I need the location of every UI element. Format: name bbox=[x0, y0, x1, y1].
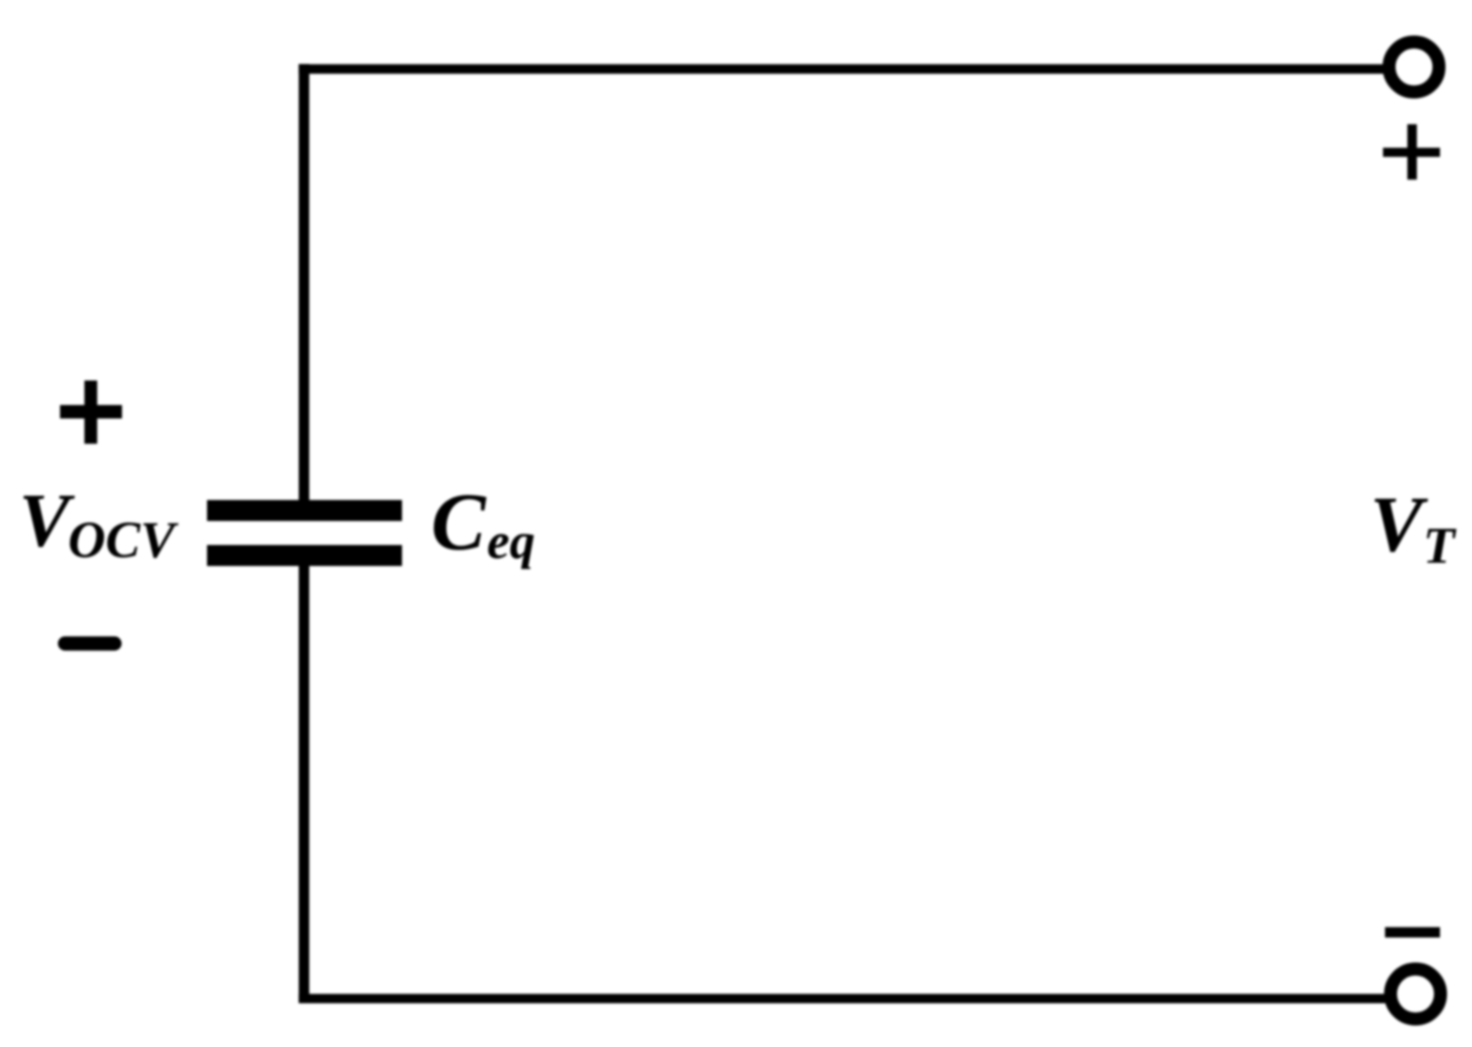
wire: bottom horizontal segment bbox=[299, 994, 1392, 1003]
label C_eq bbox=[431, 476, 535, 570]
label V_T bbox=[1370, 482, 1457, 575]
capacitor C_eq top plate bbox=[207, 500, 402, 521]
capacitor C_eq bottom plate bbox=[207, 545, 402, 566]
terminal node: top-right open circle bbox=[1389, 42, 1439, 92]
wire: left vertical upper segment bbox=[299, 64, 310, 505]
svg-text:OCV: OCV bbox=[68, 512, 179, 569]
svg-text:eq: eq bbox=[487, 514, 535, 570]
label V_OCV bbox=[19, 479, 179, 569]
wire: left vertical lower segment bbox=[299, 560, 310, 1003]
polarity plus sign for V_OCV bbox=[60, 381, 122, 444]
svg-text:V: V bbox=[19, 479, 75, 563]
wire: top horizontal segment bbox=[299, 64, 1392, 73]
polarity plus sign at V_T top terminal bbox=[1383, 124, 1440, 179]
polarity minus sign for V_OCV bbox=[65, 636, 115, 650]
terminal node: bottom-right open circle bbox=[1391, 969, 1441, 1019]
svg-text:V: V bbox=[1370, 482, 1429, 569]
svg-text:C: C bbox=[431, 476, 487, 567]
svg-text:T: T bbox=[1423, 518, 1457, 575]
polarity minus sign at V_T bottom terminal bbox=[1385, 927, 1440, 937]
